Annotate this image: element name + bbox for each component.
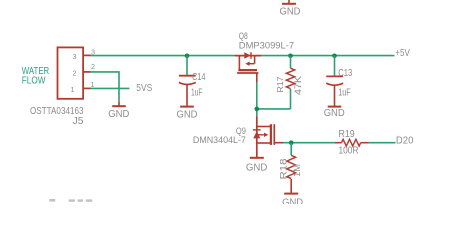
svg-text:FLOW: FLOW [22,76,46,87]
wire R17 top [290,56,292,69]
resistor R17 [286,68,294,88]
node junction gate [254,107,259,112]
svg-text:1M: 1M [292,164,302,177]
svg-text:1: 1 [71,85,75,94]
resistor R18 [287,155,296,178]
connector J5 [30,47,95,127]
wire +5V rail right segment [261,55,395,57]
wire C13 to rail [334,56,336,76]
svg-text:GND: GND [108,109,129,120]
cropped text bottom edge [49,199,92,202]
wire +5V rail left segment [90,55,235,57]
svg-text:1uF: 1uF [338,87,351,98]
svg-text:DMN3404L-7: DMN3404L-7 [193,135,246,145]
svg-text:3: 3 [73,52,77,61]
svg-text:C13: C13 [338,68,352,79]
ground GND C13 [324,107,345,120]
ground GND C14 [177,107,198,121]
wire R17 bottom [290,89,292,109]
transistor Q8 (P-MOSFET) [235,52,261,82]
svg-text:GND: GND [177,110,198,121]
node junction C14/rail [185,54,190,59]
node junction R17/rail [288,54,293,59]
ground GND R18 [282,194,303,209]
wire R18 bottom to GND [290,179,292,193]
ground GND top [280,0,301,17]
resistor R19 [335,139,369,146]
node junction R18 [289,140,294,145]
wire C14 to rail [186,56,188,75]
node junction C13/rail [332,54,337,59]
svg-text:47K: 47K [293,75,303,95]
svg-text:R17: R17 [275,76,285,92]
wire R18 top [290,143,292,156]
svg-text:R19: R19 [339,129,356,140]
svg-text:2: 2 [91,62,95,71]
capacitor C13 [326,68,352,106]
svg-text:R18: R18 [279,159,289,180]
ground GND pin2 [108,101,129,120]
wire R19 to D20 [369,142,396,144]
wire pin2 to GND [90,72,119,101]
label WATER FLOW [22,66,49,87]
svg-text:GND: GND [280,6,301,17]
svg-text:2: 2 [73,68,77,77]
svg-text:+5V: +5V [395,48,410,59]
ground GND Q9 [246,158,268,174]
svg-text:GND: GND [282,197,303,204]
svg-text:C14: C14 [192,72,206,83]
wire Q9 gate to R18/R19 node [283,142,335,144]
transistor Q9 (N-MOSFET) [253,116,283,157]
svg-text:GND: GND [246,162,268,173]
wire gate node horizontal [257,108,291,110]
svg-text:J5: J5 [73,116,84,127]
svg-text:100R: 100R [339,145,359,156]
svg-text:GND: GND [324,108,345,119]
svg-text:1uF: 1uF [191,88,203,99]
svg-text:DMP3099L-7: DMP3099L-7 [239,40,294,50]
capacitor C14 [179,72,206,106]
svg-text:D20: D20 [396,136,414,147]
svg-text:5VS: 5VS [136,83,152,94]
wire Q8 gate to node [256,82,258,116]
wire pin1 5VS [90,87,129,89]
